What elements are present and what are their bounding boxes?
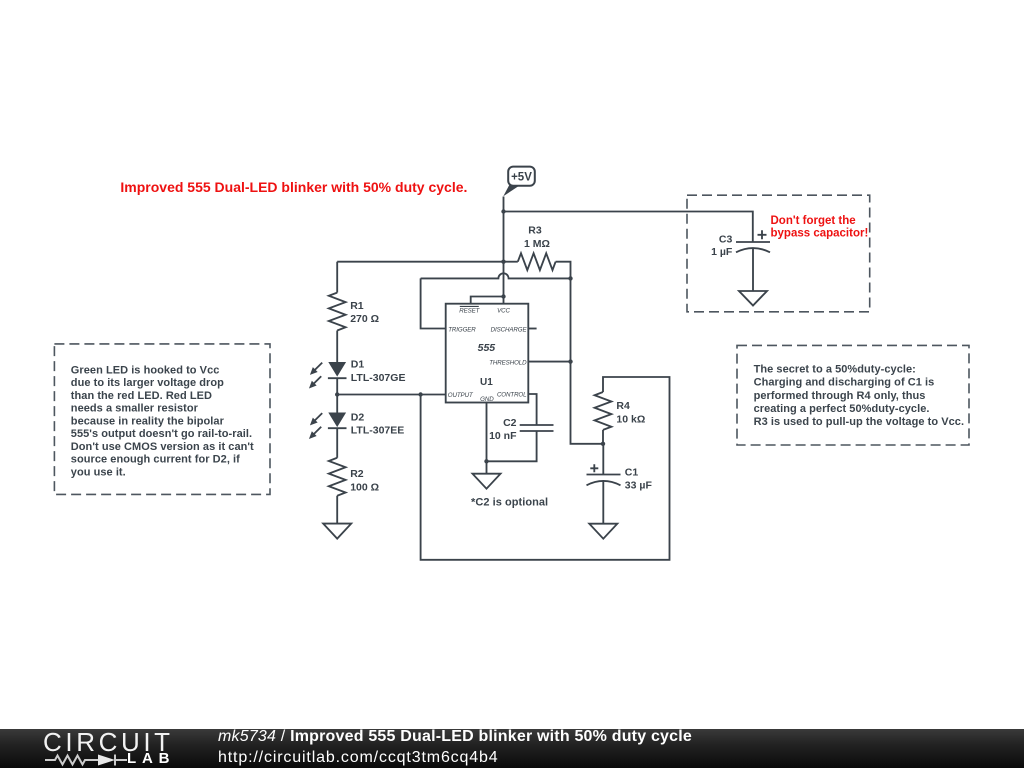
svg-text:555's output doesn't go rail-t: 555's output doesn't go rail-to-rail. [71,428,252,440]
svg-text:R3: R3 [528,225,542,237]
svg-text:R2: R2 [350,468,364,480]
svg-text:RESET: RESET [459,308,480,315]
svg-text:555: 555 [478,342,496,354]
svg-text:+5V: +5V [511,172,532,184]
svg-text:C3: C3 [719,234,733,246]
svg-text:270 Ω: 270 Ω [350,313,379,325]
svg-text:Charging and discharging of C1: Charging and discharging of C1 is [754,377,935,389]
svg-text:D2: D2 [351,412,365,424]
svg-text:*C2 is optional: *C2 is optional [471,496,548,508]
svg-text:Green LED is hooked to Vcc: Green LED is hooked to Vcc [71,364,220,376]
svg-text:OUTPUT: OUTPUT [448,392,474,399]
svg-text:10 nF: 10 nF [489,430,517,442]
svg-text:THRESHOLD: THRESHOLD [489,359,527,366]
svg-text:1 µF: 1 µF [711,246,733,258]
svg-text:100 Ω: 100 Ω [350,482,379,494]
svg-text:bypass capacitor!: bypass capacitor! [771,228,869,240]
svg-text:Don't forget the: Don't forget the [771,215,856,227]
svg-text:D1: D1 [351,359,365,371]
svg-text:source enough current for D2,: source enough current for D2, if [71,454,240,466]
svg-text:DISCHARGE: DISCHARGE [491,326,528,333]
svg-text:Don't use CMOS version as it c: Don't use CMOS version as it can't [71,441,254,453]
svg-text:GND: GND [480,396,494,403]
svg-text:U1: U1 [480,377,493,388]
svg-text:due to its larger voltage drop: due to its larger voltage drop [71,377,224,389]
svg-text:C1: C1 [625,467,639,479]
svg-text:The secret to a 50%duty-cycle:: The secret to a 50%duty-cycle: [754,363,916,375]
svg-text:because in reality the bipolar: because in reality the bipolar [71,416,225,428]
svg-text:Improved 555 Dual-LED blinker: Improved 555 Dual-LED blinker with 50% d… [120,179,467,195]
svg-text:needs a smaller resistor: needs a smaller resistor [71,403,199,415]
svg-text:10 kΩ: 10 kΩ [616,413,645,425]
svg-text:LTL-307EE: LTL-307EE [351,425,404,437]
svg-text:R4: R4 [616,400,630,412]
svg-text:R1: R1 [350,300,364,312]
svg-text:creating a perfect 50%duty-cyc: creating a perfect 50%duty-cycle. [754,403,930,415]
svg-text:LTL-307GE: LTL-307GE [351,372,406,384]
svg-text:than the red LED. Red LED: than the red LED. Red LED [71,390,212,402]
svg-text:CONTROL: CONTROL [497,392,527,399]
svg-text:performed through R4 only, thu: performed through R4 only, thus [754,390,926,402]
svg-text:TRIGGER: TRIGGER [448,326,476,333]
svg-text:you use it.: you use it. [71,467,126,479]
svg-text:VCC: VCC [497,308,510,315]
svg-text:R3 is used to pull-up the volt: R3 is used to pull-up the voltage to Vcc… [754,416,964,428]
svg-text:C2: C2 [503,417,517,429]
svg-text:1 MΩ: 1 MΩ [524,238,550,250]
svg-text:33 µF: 33 µF [625,479,653,491]
